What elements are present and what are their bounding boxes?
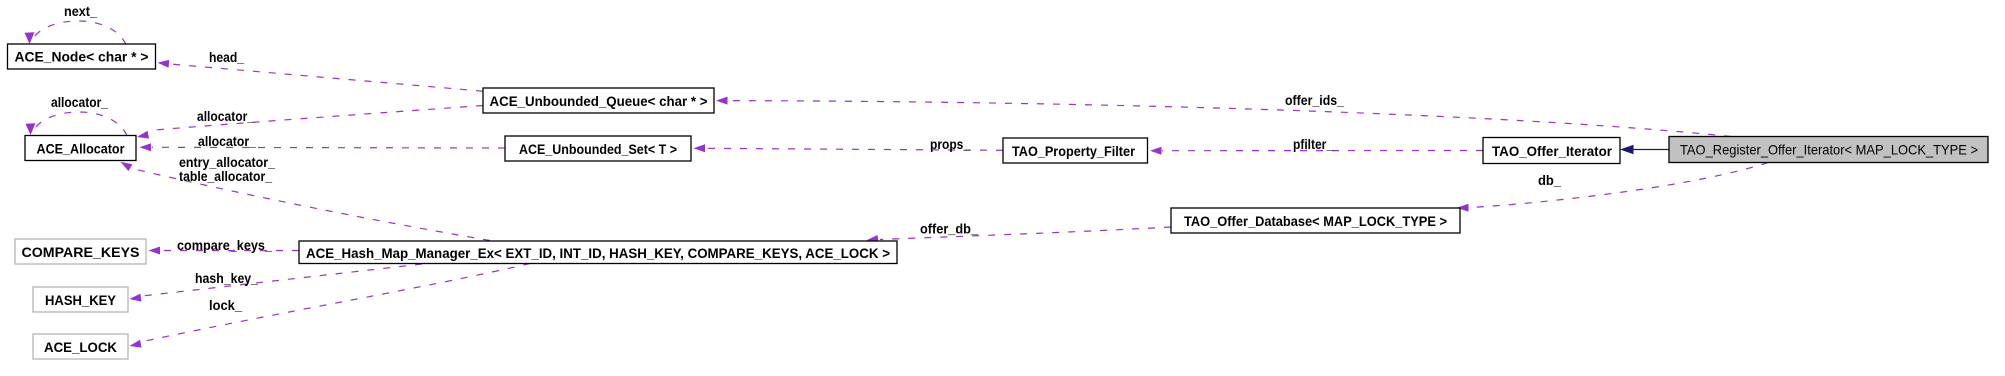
wire props_ : TAO_Property_Filter -> ACE_Unbounded_Set: [694, 136, 1004, 152]
svg-text:TAO_Property_Filter: TAO_Property_Filter: [1012, 143, 1135, 159]
svg-text:compare_keys_: compare_keys_: [177, 237, 272, 253]
node COMPARE_KEYS: [15, 239, 146, 264]
wire hash_key_ : ACE_Hash_Map_Manager_Ex -> HASH_KEY: [130, 264, 423, 302]
wire offer_ids_ : TAO_Register_Offer_Iterator -> ACE_Unbounded_Queue: [716, 92, 1731, 137]
svg-text:allocator_: allocator_: [198, 133, 256, 149]
svg-text:props_: props_: [930, 136, 970, 152]
wire compare_keys_ : ACE_Hash_Map_Manager_Ex -> COMPARE_KEYS: [149, 237, 300, 255]
wire offer_db_ : TAO_Offer_Database -> ACE_Hash_Map_Manager_Ex: [867, 221, 1172, 244]
svg-text:allocator_: allocator_: [197, 108, 254, 124]
svg-text:ACE_Node< char * >: ACE_Node< char * >: [15, 49, 149, 65]
svg-text:ACE_Allocator: ACE_Allocator: [37, 141, 125, 157]
node HASH_KEY: [33, 287, 128, 312]
svg-text:head_: head_: [209, 49, 244, 65]
node ACE_LOCK: [33, 334, 128, 359]
svg-text:lock_: lock_: [209, 297, 242, 313]
svg-text:ACE_Hash_Map_Manager_Ex< EXT_I: ACE_Hash_Map_Manager_Ex< EXT_ID, INT_ID,…: [306, 245, 890, 261]
svg-text:TAO_Offer_Database< MAP_LOCK_T: TAO_Offer_Database< MAP_LOCK_TYPE >: [1184, 213, 1447, 229]
wire next_ self-loop on ACE_Node: [25, 3, 127, 45]
node ACE_Unbounded_Queue< char * >: [483, 88, 714, 113]
wire allocator_ : ACE_Unbounded_Queue -> ACE_Allocator: [137, 106, 483, 139]
svg-text:ACE_LOCK: ACE_LOCK: [44, 339, 117, 355]
wire entry_allocator_ table_allocator_ : ACE_Hash_Map_Manager_Ex -> ACE_Allocator: [121, 154, 491, 241]
svg-text:COMPARE_KEYS: COMPARE_KEYS: [22, 244, 140, 260]
svg-text:ACE_Unbounded_Queue< char * >: ACE_Unbounded_Queue< char * >: [490, 93, 708, 109]
wire allocator_ : ACE_Unbounded_Set -> ACE_Allocator: [140, 133, 506, 151]
svg-text:allocator_: allocator_: [51, 94, 108, 110]
svg-text:HASH_KEY: HASH_KEY: [45, 292, 117, 308]
svg-text:offer_ids_: offer_ids_: [1285, 92, 1344, 108]
wire head_ : ACE_Unbounded_Queue -> ACE_Node: [158, 49, 484, 91]
svg-text:TAO_Register_Offer_Iterator< M: TAO_Register_Offer_Iterator< MAP_LOCK_TY…: [1680, 142, 1978, 158]
node ACE_Node< char * >: [8, 44, 156, 69]
node ACE_Allocator: [25, 136, 136, 161]
svg-text:hash_key_: hash_key_: [195, 270, 258, 286]
node ACE_Unbounded_Set< T >: [505, 136, 691, 161]
node TAO_Offer_Iterator: [1483, 138, 1620, 164]
svg-text:table_allocator_: table_allocator_: [179, 168, 272, 184]
wire inheritance : TAO_Register_Offer_Iterator -> TAO_Offer_Iterator: [1620, 145, 1669, 155]
svg-text:offer_db_: offer_db_: [920, 221, 978, 237]
wire db_ : TAO_Register_Offer_Iterator -> TAO_Offer_Database: [1457, 163, 1768, 212]
svg-text:TAO_Offer_Iterator: TAO_Offer_Iterator: [1492, 143, 1613, 159]
svg-text:ACE_Unbounded_Set< T >: ACE_Unbounded_Set< T >: [519, 141, 677, 157]
wire allocator_ self-loop on ACE_Allocator: [26, 94, 128, 136]
wire pfilter_ : TAO_Offer_Iterator -> TAO_Property_Filter: [1150, 136, 1483, 155]
node TAO_Property_Filter: [1003, 138, 1148, 163]
svg-text:pfilter_: pfilter_: [1293, 136, 1333, 152]
svg-text:db_: db_: [1538, 172, 1561, 188]
wire lock_ : ACE_Hash_Map_Manager_Ex -> ACE_LOCK: [130, 264, 531, 348]
node TAO_Offer_Database< MAP_LOCK_TYPE >: [1171, 208, 1460, 233]
node ACE_Hash_Map_Manager_Ex< EXT_ID, INT_ID, HASH_KEY, COMPARE_KEYS, ACE_LOCK >: [299, 241, 897, 264]
node TAO_Register_Offer_Iterator< MAP_LOCK_TYPE > (current, grey): [1669, 137, 1988, 163]
svg-text:next_: next_: [64, 3, 97, 19]
